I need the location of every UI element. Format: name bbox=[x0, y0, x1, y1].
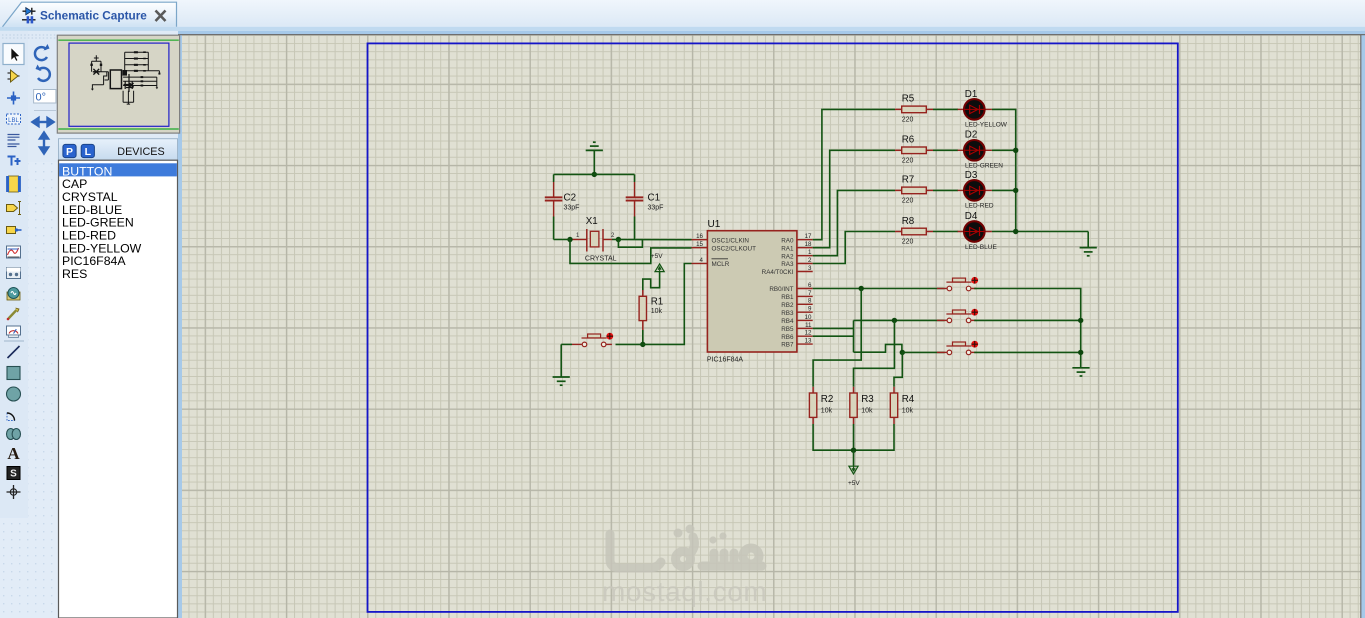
left toolbar bbox=[0, 31, 58, 618]
toolbar selection cursor tool (active) bbox=[3, 44, 24, 65]
svg-text:C2: C2 bbox=[564, 192, 577, 203]
canvas right blue margin bbox=[1361, 31, 1365, 618]
toolbar tape recorder tool bbox=[7, 268, 21, 279]
svg-text:RA2: RA2 bbox=[781, 253, 794, 260]
ground symbol LED rail bbox=[1080, 232, 1097, 256]
wire node to MCLR pin 4 bbox=[643, 264, 692, 345]
svg-text:D1: D1 bbox=[965, 89, 978, 100]
svg-text:CRYSTAL: CRYSTAL bbox=[585, 256, 617, 263]
svg-text:D2: D2 bbox=[965, 130, 978, 141]
toolbar voltage probe tool bbox=[7, 308, 19, 320]
svg-text:D4: D4 bbox=[965, 211, 978, 222]
svg-text:R2: R2 bbox=[821, 394, 834, 405]
wire RA3 to R8 bbox=[813, 232, 895, 264]
resistor R3 (10k) bbox=[850, 387, 874, 424]
toolbar junction dot tool bbox=[7, 92, 20, 105]
wire R1 bottom to button node bbox=[642, 330, 644, 344]
chip left pins 16/15/4 bbox=[692, 233, 757, 268]
wire row2 to button2 bbox=[854, 319, 945, 321]
devices list bbox=[59, 160, 178, 618]
wire RA1 to R6 bbox=[813, 150, 895, 247]
wire crystal top rail bbox=[554, 173, 635, 175]
svg-text:RB2: RB2 bbox=[781, 302, 794, 309]
wire RB6 stub to riser bbox=[813, 335, 854, 337]
wire button3 to right bus bbox=[974, 351, 1081, 353]
wire row2 node to R3 bbox=[854, 320, 895, 386]
svg-text:R8: R8 bbox=[902, 216, 915, 227]
svg-text:10: 10 bbox=[805, 314, 812, 321]
svg-text:RB6: RB6 bbox=[781, 334, 794, 341]
svg-text:R5: R5 bbox=[902, 94, 915, 105]
svg-text:12: 12 bbox=[805, 330, 812, 337]
svg-text:P: P bbox=[66, 146, 73, 158]
resistor R5 (220) bbox=[895, 94, 933, 124]
toolbar wire label tool bbox=[7, 114, 21, 124]
junction node right bus row2 bbox=[1078, 318, 1083, 323]
svg-text:A: A bbox=[7, 444, 20, 463]
toolbar component mode tool bbox=[8, 70, 20, 82]
wire OSC1 detour jog bbox=[618, 240, 642, 248]
svg-text:6: 6 bbox=[808, 282, 812, 289]
svg-text:220: 220 bbox=[902, 158, 914, 165]
junction node bus-D4 bbox=[1013, 229, 1018, 234]
svg-text:RB5: RB5 bbox=[781, 326, 794, 333]
junction node R1/button/MCLR bbox=[640, 342, 645, 347]
svg-text:11: 11 bbox=[805, 322, 812, 329]
wire R8 to D4 bbox=[933, 231, 958, 233]
power +5V symbol bottom bbox=[848, 466, 860, 487]
svg-text:MCLR: MCLR bbox=[712, 261, 730, 268]
svg-text:RB1: RB1 bbox=[781, 294, 794, 301]
wire riser RB5/RB6 bbox=[853, 320, 855, 352]
svg-text:R6: R6 bbox=[902, 135, 915, 146]
junction node +5V rail bbox=[851, 448, 856, 453]
push button wire left segment bbox=[561, 343, 572, 345]
svg-text:17: 17 bbox=[805, 233, 812, 240]
resistor R2 (10k) bbox=[809, 387, 833, 424]
LED D2 (LED-GREEN) bbox=[958, 130, 1004, 170]
top tab bar background bbox=[0, 0, 1365, 27]
svg-text:220: 220 bbox=[902, 239, 914, 246]
resistor R4 (10k) bbox=[890, 387, 914, 424]
tab icon bbox=[22, 8, 36, 24]
push button row 1 bbox=[937, 277, 978, 291]
LED D3 (LED-RED) bbox=[958, 170, 994, 210]
wire +5V to R1 staircase bbox=[643, 272, 660, 291]
junction node bus-D3 bbox=[1013, 188, 1018, 193]
svg-text:PIC16F84A: PIC16F84A bbox=[62, 254, 126, 268]
wire button to node bbox=[616, 343, 643, 345]
svg-text:X1: X1 bbox=[586, 216, 598, 227]
toolbar graph tool bbox=[7, 246, 21, 258]
wire RA2 to R7 bbox=[813, 190, 895, 255]
toolbar generator tool bbox=[7, 288, 20, 301]
blue frame band under tab bar bbox=[0, 27, 1365, 31]
wire rail to +5V symbol bbox=[853, 450, 855, 466]
svg-text:R7: R7 bbox=[902, 175, 915, 186]
wire D4 cathode to ground rail bbox=[992, 231, 1088, 233]
svg-text:LED-BLUE: LED-BLUE bbox=[965, 244, 997, 251]
toolbar subcircuit tool bbox=[6, 176, 21, 192]
svg-text:+5V: +5V bbox=[848, 480, 860, 487]
svg-text:33pF: 33pF bbox=[564, 204, 580, 211]
overview mini schematic bbox=[90, 51, 160, 104]
LED D4 (LED-BLUE) bbox=[958, 211, 998, 251]
svg-text:RB0/INT: RB0/INT bbox=[769, 286, 793, 293]
capacitor C1 (33pF) bbox=[626, 174, 664, 239]
svg-text:16: 16 bbox=[696, 233, 703, 240]
resistor R1 (10k) bbox=[639, 290, 663, 330]
overview navigator panel bbox=[57, 35, 179, 133]
svg-text:mostaql.com: mostaql.com bbox=[602, 576, 767, 607]
junction node bus-D2 bbox=[1013, 148, 1018, 153]
wire C2 bottom to crystal pin1 bbox=[554, 239, 570, 241]
svg-text:R3: R3 bbox=[861, 394, 874, 405]
svg-text:10k: 10k bbox=[821, 408, 833, 415]
svg-text:RB7: RB7 bbox=[781, 342, 794, 349]
wire R2 bottom to +5V rail bbox=[813, 424, 894, 450]
svg-text:10k: 10k bbox=[902, 408, 914, 415]
svg-text:LED-GREEN: LED-GREEN bbox=[965, 163, 1003, 170]
wire crystal pin1 to OSC2 pin 15 bbox=[570, 240, 692, 264]
crystal X1 bbox=[572, 216, 617, 263]
svg-text:220: 220 bbox=[902, 117, 914, 124]
svg-text:RA1: RA1 bbox=[781, 245, 794, 252]
svg-text:RES: RES bbox=[62, 267, 87, 281]
svg-text:LBL: LBL bbox=[8, 118, 19, 124]
rotate anticlockwise button bbox=[36, 65, 50, 81]
rotate clockwise button bbox=[35, 44, 50, 60]
toolbar text script tool bbox=[8, 135, 20, 147]
svg-text:OSC1/CLKIN: OSC1/CLKIN bbox=[712, 237, 750, 244]
svg-text:10k: 10k bbox=[651, 308, 663, 315]
wire R6 to D2 bbox=[933, 149, 958, 151]
left sidebar background bbox=[0, 31, 178, 618]
svg-text:220: 220 bbox=[902, 198, 914, 205]
ground symbol below left button bbox=[553, 344, 570, 385]
junction node crystal pin 2 bbox=[616, 237, 621, 242]
cathode bus vertical bbox=[1015, 150, 1017, 231]
wire D2 cathode to bus bbox=[992, 149, 1016, 151]
svg-text:13: 13 bbox=[805, 338, 812, 345]
watermark mostaql.com bbox=[602, 525, 767, 608]
wire button1 to right bus bbox=[974, 289, 1080, 368]
wire R7 to D3 bbox=[933, 189, 958, 191]
schematic sheet border bbox=[368, 43, 1178, 612]
svg-text:18: 18 bbox=[805, 241, 812, 248]
toolbar 2D arc tool bbox=[7, 413, 15, 421]
svg-text:2: 2 bbox=[808, 257, 812, 264]
svg-text:RA3: RA3 bbox=[781, 261, 794, 268]
svg-text:8: 8 bbox=[808, 298, 812, 305]
chip right pins bbox=[762, 233, 813, 349]
junction node crystal pin 1 bbox=[567, 237, 572, 242]
svg-text:D3: D3 bbox=[965, 170, 978, 181]
svg-text:U1: U1 bbox=[708, 219, 721, 230]
wire button2 to right bus bbox=[974, 319, 1081, 321]
wire D1 cathode to bus bbox=[992, 109, 1016, 150]
wire R5 to D1 bbox=[933, 108, 958, 110]
svg-text:LED-RED: LED-RED bbox=[965, 203, 994, 210]
toolbar 2D line tool bbox=[8, 346, 20, 358]
capacitor C2 (33pF) bbox=[545, 174, 580, 239]
svg-text:OSC2/CLKOUT: OSC2/CLKOUT bbox=[712, 245, 757, 252]
svg-text:R1: R1 bbox=[651, 297, 664, 308]
ground symbol above crystal bbox=[586, 142, 603, 174]
junction node row3 bbox=[900, 350, 905, 355]
svg-text:PIC16F84A: PIC16F84A bbox=[707, 357, 744, 364]
toolbar terminal tool bbox=[7, 202, 22, 215]
svg-text:0°: 0° bbox=[36, 92, 47, 104]
junction node right bus row3 bbox=[1078, 350, 1083, 355]
toolbar 2D box tool bbox=[7, 367, 20, 380]
svg-text:7: 7 bbox=[808, 290, 812, 297]
svg-text:33pF: 33pF bbox=[648, 204, 664, 211]
mirror horizontal button bbox=[33, 118, 54, 126]
svg-text:4: 4 bbox=[700, 257, 704, 264]
wire D3 cathode to bus bbox=[992, 189, 1016, 191]
svg-text:9: 9 bbox=[808, 306, 812, 313]
push button row 3 bbox=[937, 341, 978, 355]
devices panel header bbox=[59, 139, 178, 161]
svg-text:Schematic Capture: Schematic Capture bbox=[40, 8, 147, 22]
wire RB0 row to button bbox=[813, 288, 945, 290]
wire RA0 to R5 bbox=[813, 109, 895, 239]
wire row3 feed bbox=[854, 344, 902, 352]
toolbar device pin tool bbox=[7, 227, 22, 234]
power +5V symbol near R1 bbox=[651, 253, 664, 271]
svg-text:+5V: +5V bbox=[651, 253, 663, 260]
wire crystal pin2 to OSC1 pin 16 bbox=[612, 239, 692, 241]
resistor R6 (220) bbox=[895, 135, 933, 165]
svg-text:LED-YELLOW: LED-YELLOW bbox=[965, 122, 1008, 129]
microcontroller U1 PIC16F84A bbox=[707, 219, 797, 363]
svg-text:S: S bbox=[10, 469, 17, 480]
svg-text:L: L bbox=[85, 146, 92, 158]
wire RB0 node to R2 bbox=[813, 289, 861, 387]
wire RB5 stub to riser bbox=[813, 327, 854, 329]
svg-text:RB3: RB3 bbox=[781, 310, 794, 317]
svg-text:R4: R4 bbox=[902, 394, 915, 405]
LED D1 (LED-YELLOW) bbox=[958, 89, 1008, 129]
toolbar 2D symbol tool bbox=[7, 467, 20, 480]
svg-text:CRYSTAL: CRYSTAL bbox=[62, 190, 118, 204]
svg-text:C1: C1 bbox=[648, 192, 661, 203]
wire row3 to button3 bbox=[902, 351, 944, 353]
resistor R8 (220) bbox=[895, 216, 933, 246]
svg-text:RA4/T0CKI: RA4/T0CKI bbox=[762, 269, 794, 276]
junction node RB0 bbox=[859, 286, 864, 291]
toolbar 2D text tool bbox=[7, 444, 20, 463]
push button near R1 bbox=[572, 333, 613, 347]
svg-text:RB4: RB4 bbox=[781, 318, 794, 325]
svg-text:3: 3 bbox=[808, 265, 812, 272]
svg-text:1: 1 bbox=[808, 249, 812, 256]
Schematic Capture tab bbox=[3, 2, 177, 27]
svg-text:15: 15 bbox=[696, 241, 703, 248]
toolbar current probe tool bbox=[7, 326, 21, 337]
rotation angle field bbox=[34, 90, 56, 104]
toolbar bus tool bbox=[8, 157, 21, 166]
ground symbol button bus bbox=[1072, 368, 1089, 376]
resistor R7 (220) bbox=[895, 175, 933, 205]
canvas left blue margin bbox=[178, 34, 182, 618]
svg-text:RA0: RA0 bbox=[781, 237, 794, 244]
toolbar 2D circle tool bbox=[7, 387, 21, 401]
tab close button bbox=[156, 11, 166, 22]
mirror vertical button bbox=[40, 133, 48, 154]
push button row 2 bbox=[937, 309, 978, 323]
wire row3 node to R4 bbox=[894, 352, 902, 386]
toolbar divider bbox=[4, 340, 24, 342]
junction node at crystal top bbox=[592, 172, 597, 177]
svg-text:10k: 10k bbox=[861, 408, 873, 415]
junction node row2 bbox=[892, 318, 897, 323]
toolbar marker tool bbox=[7, 485, 21, 499]
wire R3 bottom to rail bbox=[853, 424, 855, 450]
svg-text:DEVICES: DEVICES bbox=[117, 146, 164, 158]
toolbar 2D closed path tool bbox=[7, 429, 21, 440]
